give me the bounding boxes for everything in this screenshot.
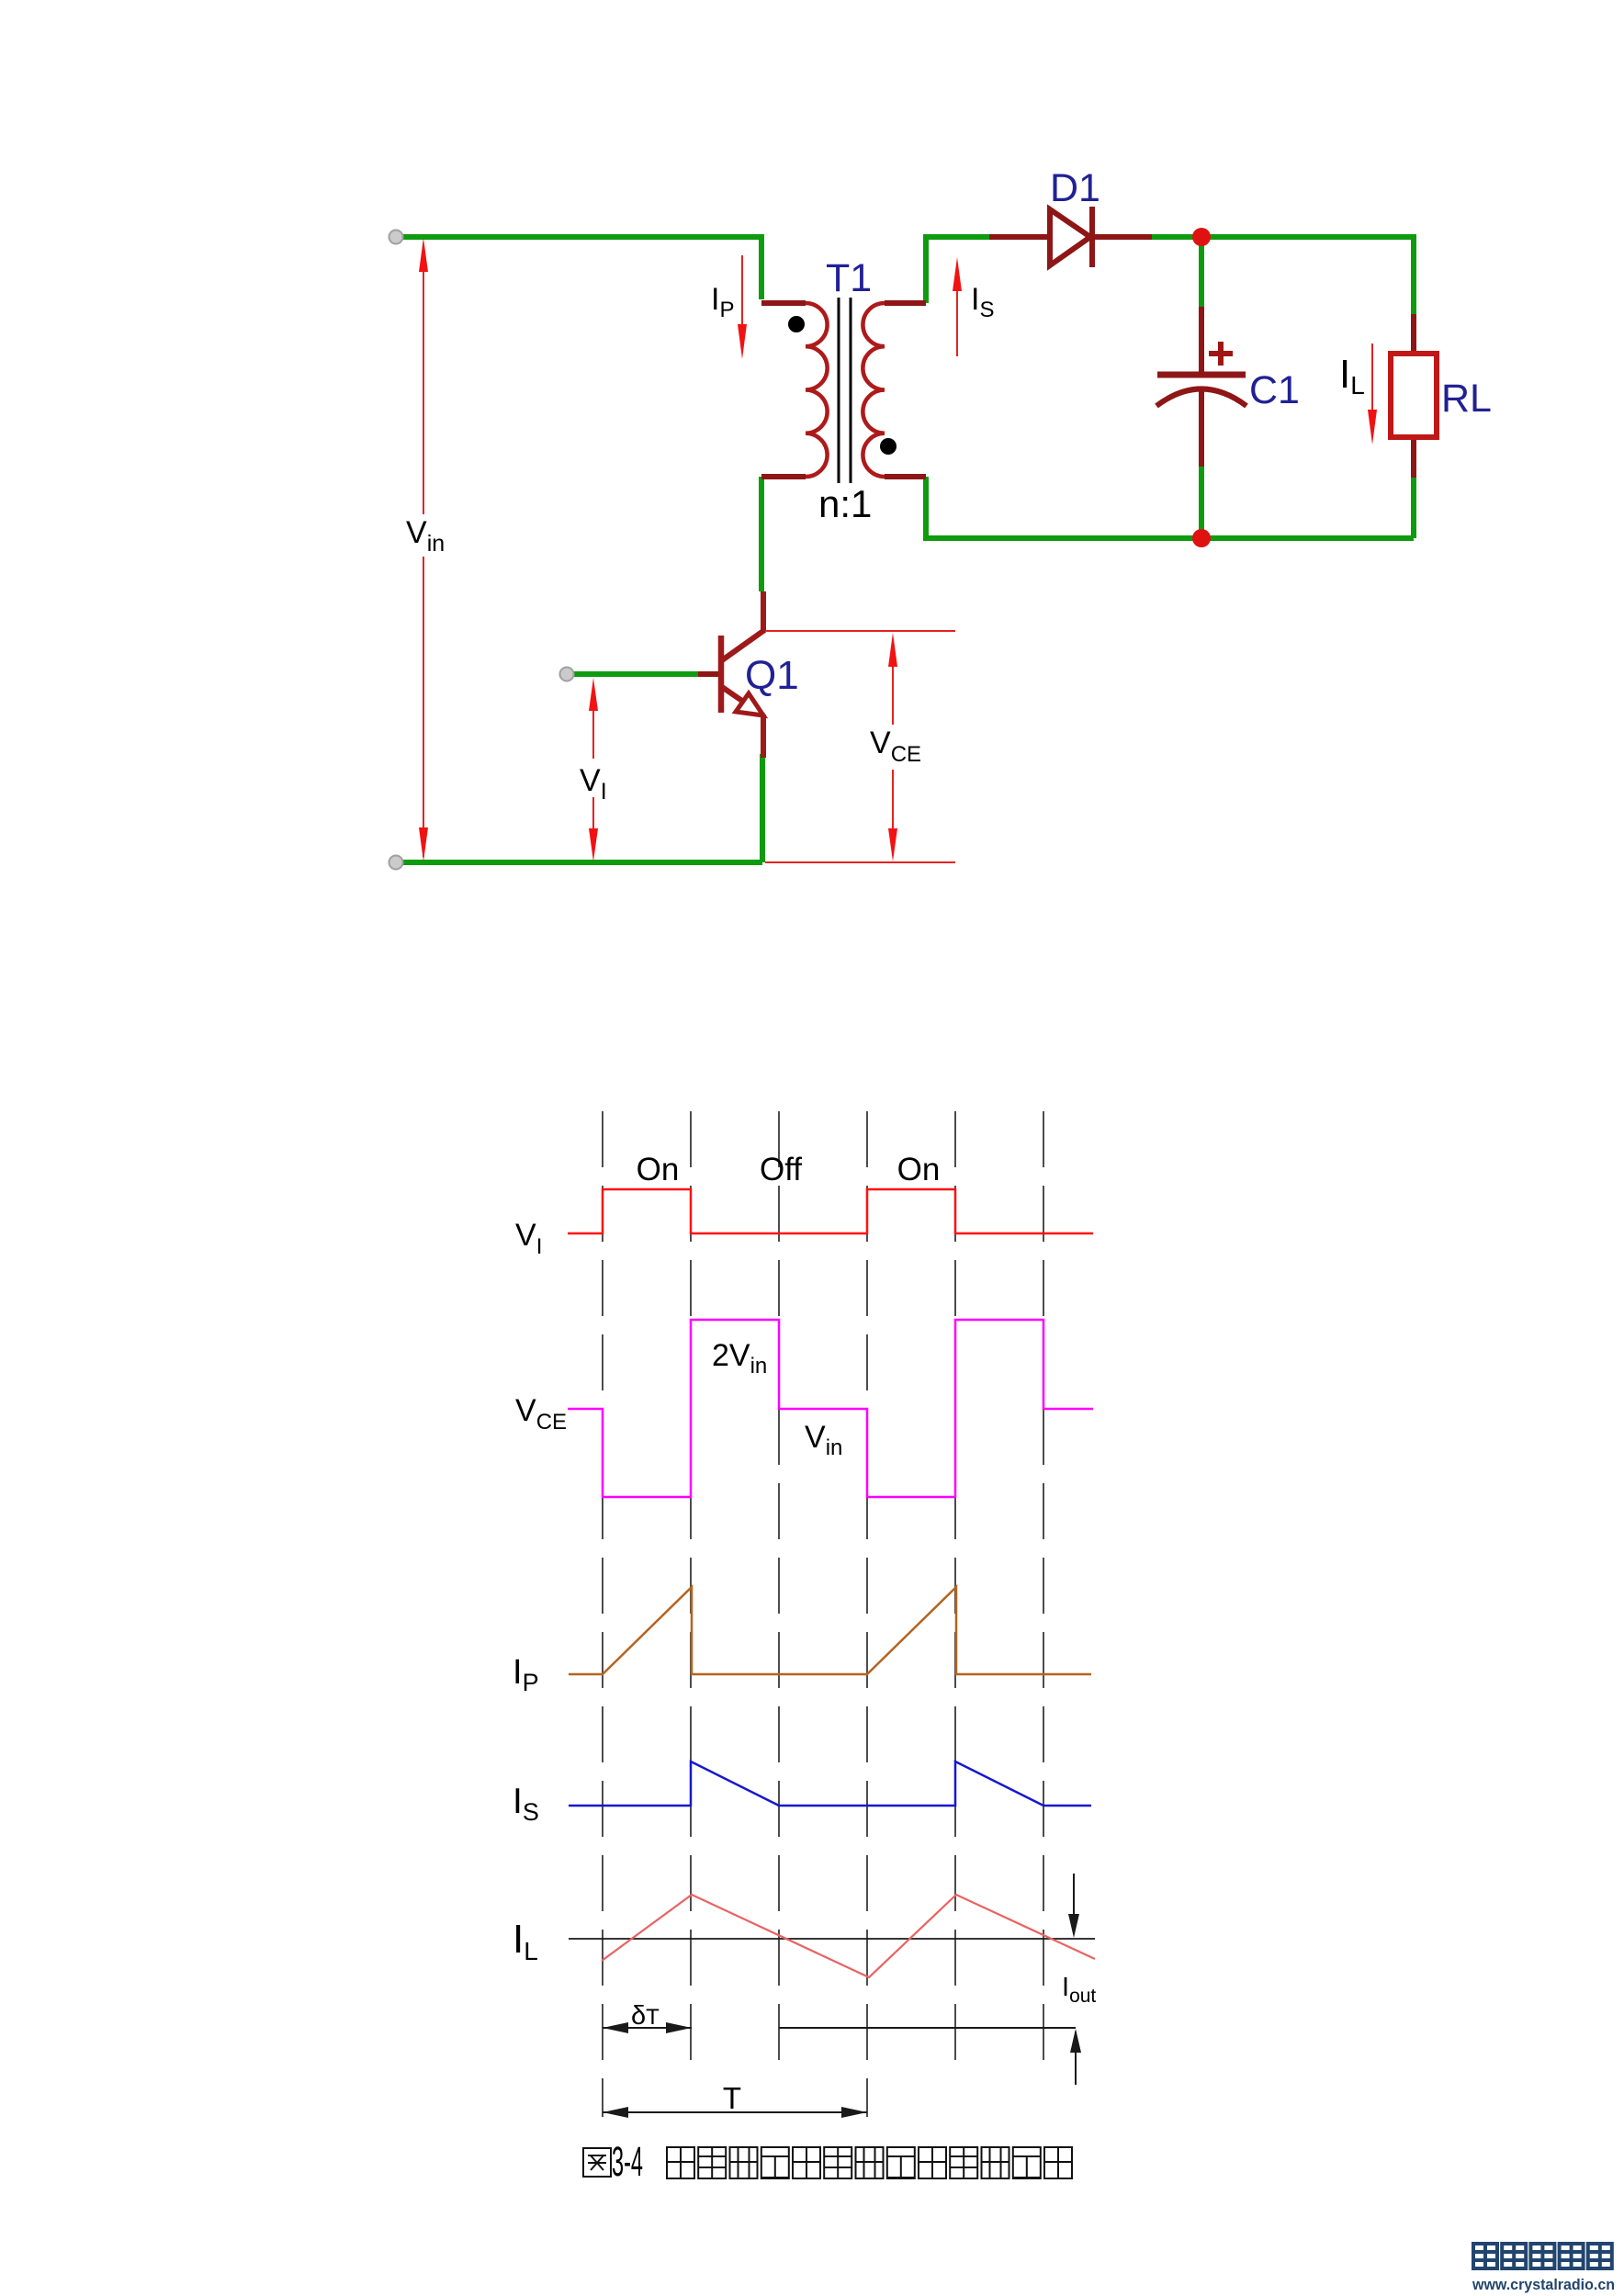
svg-text:n:1: n:1 — [818, 482, 872, 525]
svg-text:www.crystalradio.cn: www.crystalradio.cn — [1472, 2276, 1615, 2293]
svg-text:D1: D1 — [1050, 166, 1100, 210]
svg-text:C1: C1 — [1249, 368, 1300, 412]
svg-text:On: On — [637, 1152, 680, 1187]
svg-text:Off: Off — [760, 1152, 802, 1187]
svg-text:3-4: 3-4 — [612, 2138, 643, 2185]
svg-text:δT: δT — [631, 2001, 660, 2031]
svg-text:T: T — [723, 2081, 741, 2115]
svg-text:Q1: Q1 — [745, 653, 799, 698]
svg-text:RL: RL — [1441, 377, 1492, 421]
svg-text:On: On — [897, 1152, 941, 1187]
svg-text:T1: T1 — [826, 256, 872, 300]
